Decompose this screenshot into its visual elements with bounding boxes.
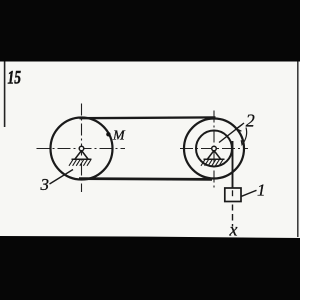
svg-text:3: 3 <box>40 175 50 194</box>
svg-text:M: M <box>112 129 126 144</box>
svg-text:1: 1 <box>257 181 266 200</box>
svg-text:15: 15 <box>8 68 22 89</box>
svg-text:2: 2 <box>246 111 255 131</box>
svg-text:x: x <box>229 220 238 240</box>
